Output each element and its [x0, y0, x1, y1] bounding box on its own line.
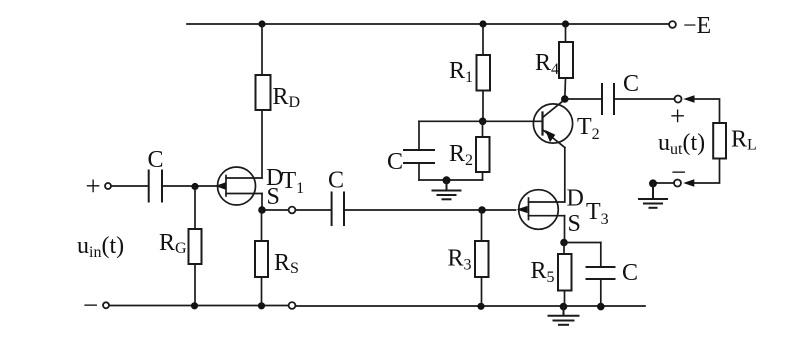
wire R2 bottom lead [482, 172, 484, 180]
node bottom R5 [560, 303, 568, 311]
wire mid terminal to coupling capacitor [296, 209, 331, 211]
node top rail / RD junction [258, 20, 265, 27]
wire R3 bottom lead [481, 277, 483, 306]
wire to RL top [694, 99, 720, 123]
svg-text:S: S [568, 211, 581, 237]
svg-text:C: C [387, 149, 403, 175]
wire RG top lead [194, 187, 196, 230]
node bottom RG [191, 302, 198, 309]
wire RS bottom lead [261, 277, 263, 306]
svg-text:−: − [83, 290, 98, 320]
wire bottom rail left [110, 305, 289, 307]
terminal - input (open circle) [103, 302, 109, 308]
transistor T3 (FET) [517, 190, 565, 230]
resistor R3 [475, 241, 489, 277]
node gate / RG junction [191, 183, 198, 190]
wire R1 bottom lead [482, 91, 484, 122]
wire R5 top lead [563, 243, 565, 255]
capacitor C coupling [332, 193, 344, 226]
node T2 collector / R4 / C out junction [561, 95, 569, 103]
wire RD top lead [261, 24, 263, 75]
svg-text:uin(t): uin(t) [77, 233, 124, 261]
wire source to mid terminal [266, 209, 289, 211]
wire T1 source lead [261, 194, 263, 211]
wire R5 bottom lead [564, 291, 566, 307]
wire bottom rail right [296, 305, 645, 307]
svg-text:+: + [670, 101, 685, 131]
wire input to capacitor [111, 185, 147, 187]
capacitor C input [149, 171, 162, 202]
wire capacitor to T1 gate [163, 185, 222, 187]
svg-text:R4: R4 [535, 50, 559, 78]
svg-text:uut(t): uut(t) [658, 130, 705, 158]
terminal mid signal (open circle) [289, 207, 296, 214]
resistor R4 [559, 42, 573, 78]
svg-text:−: − [671, 157, 686, 187]
wire RD bottom lead to T1 drain [261, 110, 263, 178]
svg-text:RS: RS [274, 250, 299, 277]
svg-text:T3: T3 [586, 199, 609, 228]
capacitor C output [602, 84, 614, 114]
node top rail / R4 junction [562, 20, 569, 27]
node T1 source junction [258, 206, 266, 214]
node ground G1 junction [443, 176, 451, 184]
svg-text:RL: RL [731, 127, 757, 154]
svg-text:R2: R2 [449, 141, 473, 169]
wire R3 top lead [481, 210, 483, 241]
wire coupling capacitor to T3 gate [344, 209, 516, 211]
node T3 source junction [560, 239, 568, 247]
wire C5 bottom lead [600, 280, 602, 307]
wire top supply rail [187, 23, 668, 25]
wire base of T2 [483, 120, 543, 122]
svg-text:R5: R5 [531, 258, 555, 286]
wire - terminal to ground [653, 182, 674, 184]
wire R4 bottom lead [564, 78, 567, 99]
transistor T2 (BJT) [533, 100, 572, 148]
node R3 / gate junction [478, 206, 486, 214]
resistor R1 [477, 55, 491, 91]
wire C2 top lead [418, 121, 420, 149]
terminal mid bottom (open circle) [289, 302, 296, 309]
node output ground junction [649, 179, 657, 187]
terminal + input (open circle) [105, 183, 111, 189]
resistor R5 [558, 254, 572, 291]
svg-text:T1: T1 [282, 168, 305, 197]
resistor RL [713, 123, 726, 159]
wire R4 top lead [565, 24, 567, 42]
wire T3 source to C5 [564, 242, 601, 244]
svg-text:+: + [86, 171, 101, 201]
transistor T1 (FET) [215, 167, 262, 205]
terminal + output (open circle) [675, 96, 682, 103]
svg-text:−E: −E [683, 13, 711, 39]
svg-text:C: C [148, 147, 164, 173]
svg-text:C: C [622, 260, 638, 286]
wire T2 emitter to T3 drain [564, 148, 566, 203]
svg-text:C: C [328, 168, 344, 194]
resistor RG [189, 229, 202, 264]
wire RG bottom lead [194, 264, 196, 306]
svg-text:R3: R3 [448, 246, 472, 274]
ground G1 [433, 180, 461, 199]
capacitor C5 [587, 267, 615, 279]
node R1/R2/C2 junction [479, 118, 487, 126]
wire C2 to R2 bottom [419, 179, 483, 181]
wire T3 source lead [564, 216, 566, 242]
svg-text:S: S [267, 184, 280, 210]
svg-text:T2: T2 [577, 114, 600, 143]
wire RL bottom lead [694, 159, 720, 184]
terminal - output (open circle) [674, 180, 681, 187]
wire R2 top lead [482, 121, 484, 137]
wire RS top lead [261, 210, 263, 241]
ground G2 [549, 307, 579, 325]
node top rail / R1 junction [479, 20, 486, 27]
resistor RS [255, 241, 268, 277]
wire C5 top lead [600, 243, 602, 267]
resistor RD [256, 75, 271, 110]
wire output capacitor to + terminal [615, 98, 674, 100]
wire R1 top lead [482, 24, 484, 55]
arrow at + output terminal [683, 95, 694, 103]
wire C2 bottom lead [418, 164, 420, 180]
wire collector junction to output capacitor [565, 98, 601, 100]
svg-text:R1: R1 [449, 58, 473, 86]
svg-text:RG: RG [159, 230, 187, 257]
resistor R2 [476, 137, 490, 172]
svg-text:C: C [623, 71, 639, 97]
wire junction to C2 top [419, 120, 483, 122]
ground G3 [639, 183, 667, 207]
terminal -E (open circle) [669, 21, 676, 28]
node bottom R3 [477, 303, 484, 310]
arrow at - output terminal [683, 179, 694, 187]
node bottom RS [258, 302, 265, 309]
capacitor C2 [404, 150, 434, 163]
svg-text:D: D [567, 186, 584, 212]
svg-text:RD: RD [273, 84, 301, 111]
node bottom C5 [597, 303, 605, 311]
